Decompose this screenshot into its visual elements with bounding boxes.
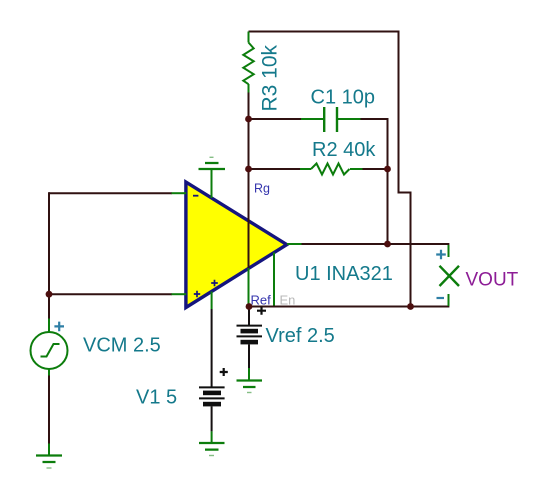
wire C1 row right [360,118,389,120]
wire Rg net over triangle [248,169,250,268]
battery Vref plus mark [257,307,266,315]
pin stub V+ supply to V1 [211,292,213,310]
voltmeter VOUT plus mark [436,250,446,260]
ground V1 small bar [209,455,214,457]
battery V1 plus mark [220,368,228,376]
wire mid vertical C1 to output [387,119,389,245]
voltmeter VOUT bottom terminal bracket [448,294,450,306]
ground VCM small bar [47,467,52,469]
battery Vref thin plates [237,326,263,337]
resistor R3 leads [248,32,250,93]
resistor R2 leads [300,168,363,170]
junction node R3-C1 [245,116,252,123]
battery V1 wire bottom [211,406,213,431]
wire top net R3 top to right drop [249,31,399,33]
source VCM waveform [41,344,60,357]
wire plus input horizontal [49,293,172,295]
ground VCM bars [36,456,62,463]
battery Vref thick plates [241,329,259,334]
junction node R3-R2 [245,166,252,173]
wire bottom rail Ref to VOUT minus [249,306,449,308]
svg-text:U1 INA321: U1 INA321 [295,263,393,285]
junction node Ref [246,303,253,310]
voltmeter VOUT X symbol [440,266,460,286]
battery Vref wire top [248,307,250,326]
svg-text:Ref: Ref [251,293,272,308]
svg-text:VCM 2.5: VCM 2.5 [83,335,161,357]
wire left vertical [48,192,50,294]
battery V1 thin plates [199,387,225,398]
svg-text:C1 10p: C1 10p [311,87,376,109]
svg-text:R3 10k: R3 10k [259,44,282,111]
resistor R3 zigzag [243,43,253,85]
ground above op-amp small bar [210,156,214,158]
ground Vref small bar [247,392,252,394]
wire node C1 to node R2 [248,119,250,169]
svg-text:Rg: Rg [254,182,270,196]
op-amp U1 INA321 triangle [186,182,287,308]
capacitor C1 plates [324,107,337,132]
wire right vertical drop with jog [399,31,411,307]
ground V1 stem [211,431,213,443]
pin lead output [287,243,302,245]
ground V1 bars [199,443,225,450]
ground VCM stem [48,444,50,456]
wire C1 row left [249,118,302,120]
ground Vref stem [248,368,250,381]
battery Vref wire bottom [248,344,250,368]
source VCM circle [31,332,68,369]
op-amp positive supply mark [211,280,218,287]
wire VCM top [48,294,50,318]
voltmeter VOUT minus mark [437,297,445,299]
pin stub plus input [172,293,187,295]
junction node bottom rail right [407,303,414,310]
op-amp plus input mark [194,291,200,297]
pin lead En [273,253,275,306]
junction node output [384,241,391,248]
battery V1 wire top [211,309,213,387]
ground Vref bars [237,381,263,388]
svg-text:R2 40k: R2 40k [312,139,376,161]
source VCM stems [48,319,50,376]
wire R2 row right [363,168,388,170]
ground above op-amp bars [199,163,226,169]
resistor R2 zigzag [311,164,350,175]
svg-text:VOUT: VOUT [466,270,519,291]
source VCM plus mark [54,322,64,332]
svg-text:Vref 2.5: Vref 2.5 [266,325,335,347]
wire R2 row left [249,168,301,170]
junction node VCM plus input [46,291,53,298]
wire VCM bottom to ground [48,369,50,444]
voltmeter VOUT top terminal bracket [448,245,450,257]
capacitor C1 leads [301,118,361,120]
pin stub minus input [172,192,187,194]
pin lead Ref [248,268,250,307]
wire R3 bottom to node [248,92,250,119]
svg-text:En: En [280,293,296,308]
op-amp minus input mark [193,195,198,197]
wire output row [301,243,449,245]
wire minus input horizontal [49,192,172,194]
junction node R2 right [384,166,391,173]
ground above op-amp stem [211,169,213,198]
battery V1 thick plates [203,391,221,396]
svg-text:V1 5: V1 5 [136,387,177,409]
